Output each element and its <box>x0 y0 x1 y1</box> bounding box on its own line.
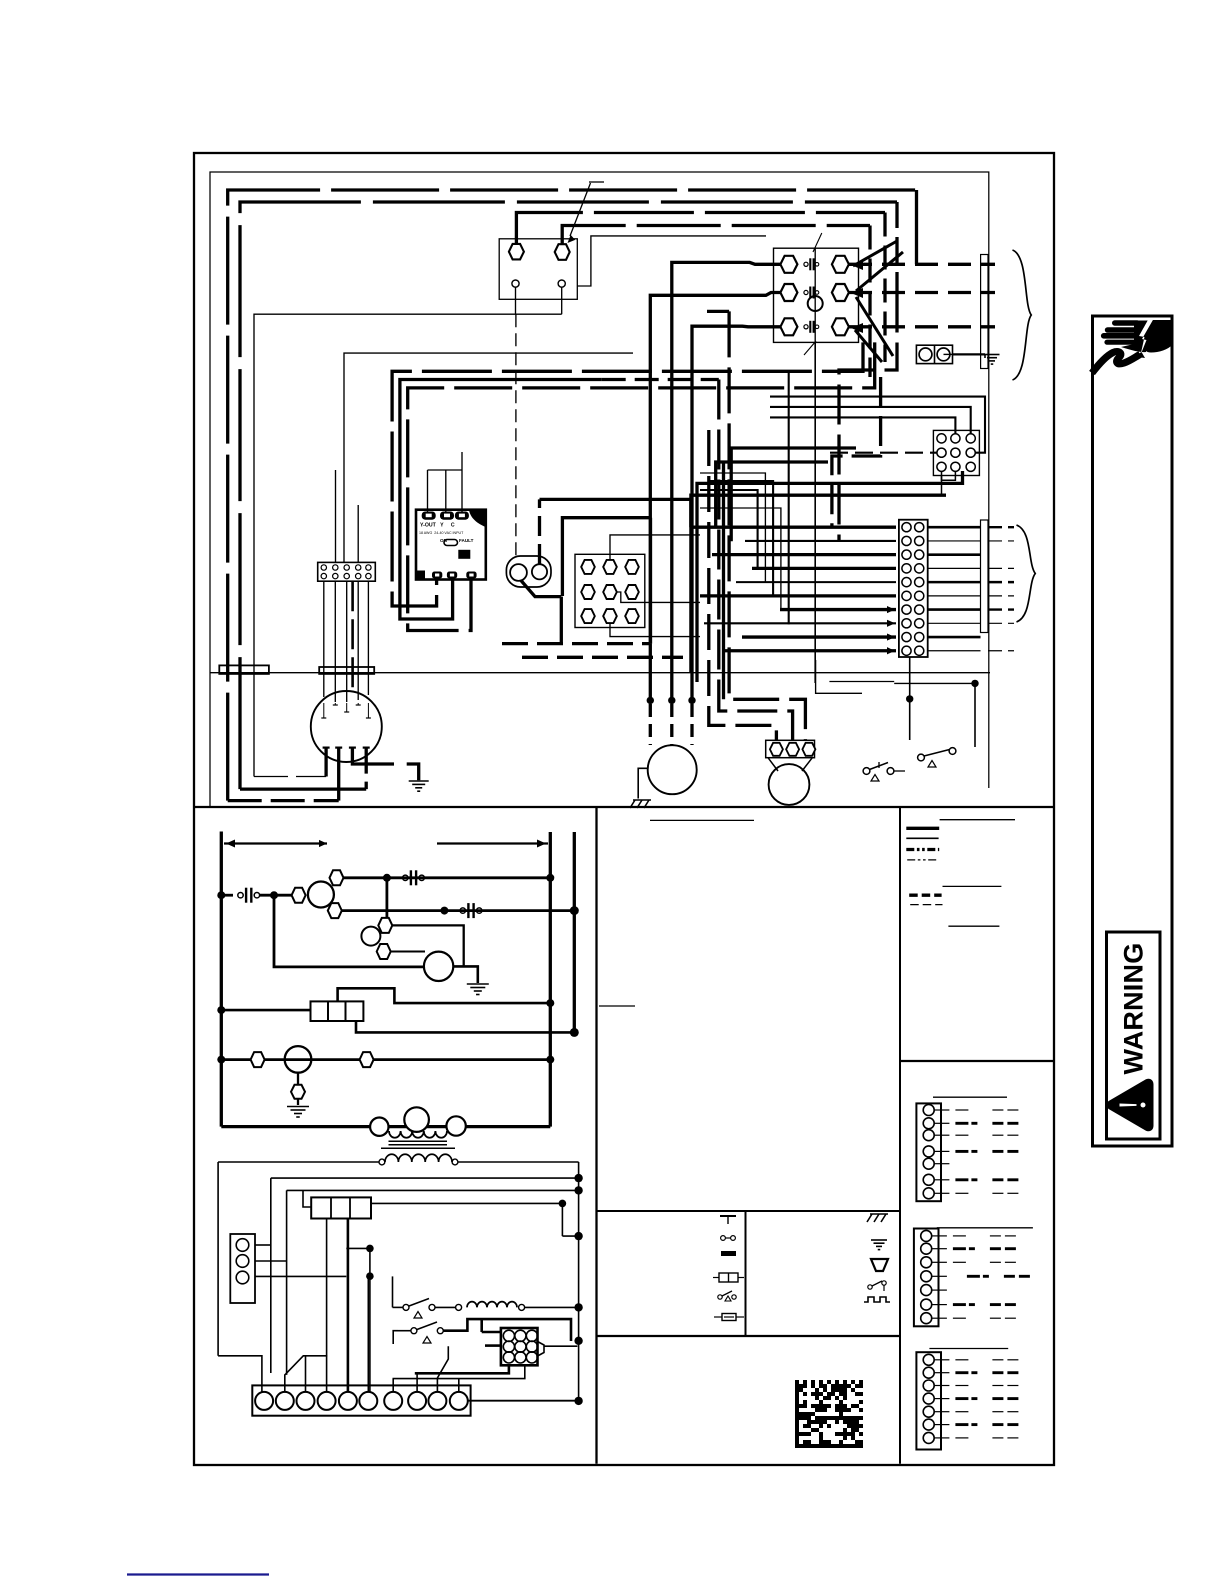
svg-text:Y-OUT Y C: Y-OUT Y C <box>420 523 455 529</box>
svg-text:FAULT: FAULT <box>459 538 474 543</box>
svg-text:WARNING: WARNING <box>1119 943 1149 1075</box>
svg-text:18 AWG 24-40 VAC INPUT: 18 AWG 24-40 VAC INPUT <box>419 531 464 535</box>
